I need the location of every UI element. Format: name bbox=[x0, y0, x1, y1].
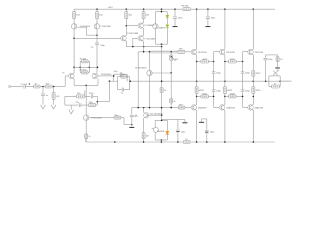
wire T9 emitter to rail bbox=[196, 62, 198, 82]
resistor R29 10 damping bbox=[272, 85, 280, 88]
junction feedback node bbox=[113, 75, 115, 77]
wire bbox=[126, 76, 129, 78]
wire LTP tail bbox=[74, 84, 98, 86]
wire feedback riser bbox=[108, 81, 110, 101]
svg-text:2SA970: 2SA970 bbox=[158, 27, 166, 30]
resistor R16 4R7 upper base bbox=[178, 50, 185, 53]
svg-text:T4 2SA970: T4 2SA970 bbox=[144, 24, 155, 27]
transistor T4 2SA970 bbox=[153, 24, 158, 29]
wire output stub bbox=[280, 80, 291, 82]
wire C17 lead bbox=[207, 9, 209, 16]
wire fb loop left vertical bbox=[117, 77, 119, 90]
wire T2 collector column lower bbox=[96, 44, 98, 73]
wire LTP right emitter bbox=[97, 79, 99, 86]
wire top supply rail left segment bbox=[74, 8, 183, 10]
junction diode bracket bottom bbox=[161, 139, 163, 141]
wire diode bracket bottom bbox=[155, 139, 167, 141]
transistor T15 2SC5200 bbox=[248, 49, 253, 55]
wire lower drive rail right bbox=[185, 107, 191, 109]
junction T2 collector diode connection bbox=[96, 34, 98, 36]
wire bbox=[88, 71, 89, 73]
wire T15 emitter bbox=[252, 55, 254, 62]
junction loop right bbox=[89, 67, 91, 69]
junction top rail x196 bbox=[196, 8, 198, 10]
svg-text:1k: 1k bbox=[35, 84, 37, 86]
junction x149 y52 bbox=[149, 51, 151, 53]
junction x132 y46 bbox=[132, 46, 134, 48]
resistor R7 4k7 bbox=[45, 85, 52, 88]
inductor L1 bbox=[273, 71, 278, 75]
wire bbox=[265, 55, 267, 58]
resistor R1 100 bbox=[73, 12, 76, 19]
wire bbox=[225, 61, 229, 63]
wire C2 to ground bbox=[42, 95, 44, 105]
junction x149 lower rail bbox=[149, 107, 151, 109]
input terminal bbox=[9, 86, 11, 88]
wire T16 collector to bottom rail bbox=[252, 110, 254, 142]
junction T16 emitter node bbox=[253, 96, 255, 98]
wire bbox=[40, 86, 45, 88]
wire T13 emitter bbox=[224, 55, 226, 62]
svg-text:2SA1943: 2SA1943 bbox=[226, 106, 235, 109]
wire bbox=[252, 93, 254, 104]
wire tail loop left vertical bbox=[64, 96, 66, 105]
resistor R19 1k bbox=[170, 99, 173, 103]
svg-text:R4 470: R4 470 bbox=[80, 70, 87, 72]
wire T3 emitter to T7 collector bbox=[143, 28, 145, 35]
resistor R24 0R22 vertical bbox=[252, 71, 255, 77]
junction LED bracket top bbox=[161, 11, 163, 13]
wire T8 base to trimmer bottom bbox=[150, 72, 171, 74]
svg-text:100n: 100n bbox=[211, 17, 215, 19]
svg-text:100n: 100n bbox=[268, 59, 272, 61]
svg-text:47k: 47k bbox=[56, 96, 59, 98]
wire T9 emitter bbox=[196, 55, 198, 62]
transistor T14 2SA1943 bbox=[219, 105, 224, 111]
capacitor C4 tail bbox=[91, 94, 92, 98]
wire bbox=[118, 89, 122, 91]
wire bracket right lower bbox=[166, 134, 168, 140]
wire to T6 base bbox=[74, 37, 121, 39]
junction trimmer bottom bbox=[170, 72, 172, 74]
ground bar C6 bbox=[129, 126, 134, 129]
junction T9 emitter bbox=[196, 61, 198, 63]
transistor T16 2SA1943 bbox=[248, 105, 253, 111]
wire LED column lower bbox=[166, 28, 168, 45]
wire bbox=[196, 93, 198, 104]
wire T14 base bbox=[214, 106, 220, 108]
capacitor C7 33p bbox=[120, 72, 121, 76]
svg-text:220u: 220u bbox=[89, 93, 93, 95]
ground arrow input resistor bbox=[51, 105, 56, 109]
wire LED column upper bbox=[166, 12, 168, 16]
junction x138 lower rail bbox=[137, 107, 139, 109]
wire bbox=[236, 95, 243, 97]
wire upper base feed bbox=[138, 51, 178, 53]
capacitor C17 100n bbox=[206, 17, 210, 18]
wire bbox=[80, 60, 81, 62]
junction x161 lower rail bbox=[161, 107, 163, 109]
capacitor C10 100u electrolytic bbox=[176, 129, 180, 131]
wire C6 upper lead bbox=[131, 108, 133, 115]
wire zobel top bbox=[266, 54, 278, 56]
wire top supply rail right segment bbox=[190, 8, 275, 10]
junction C11 bottom rail bbox=[206, 141, 208, 143]
wire LED bracket top bbox=[155, 11, 167, 13]
wire bbox=[125, 19, 127, 26]
wire T7 emitter drop bbox=[143, 41, 145, 52]
wire base column x213 upper bbox=[213, 52, 215, 62]
junction T11 collector bbox=[143, 107, 145, 109]
junction C10 bottom rail bbox=[177, 141, 179, 143]
resistor R15 1k bbox=[85, 134, 88, 139]
trimmer P1 arrow bbox=[170, 56, 175, 61]
wire R19 to lower rail bbox=[170, 103, 172, 108]
junction emitter column3 mid rail bbox=[253, 80, 255, 82]
wire between LEDs bbox=[166, 18, 168, 25]
wire bbox=[96, 104, 98, 106]
svg-text:+42V: +42V bbox=[108, 7, 114, 9]
wire bbox=[143, 9, 145, 12]
junction T16 bottom rail bbox=[253, 141, 255, 143]
wire bbox=[197, 61, 201, 63]
wire cs base bbox=[89, 117, 114, 119]
wire loop left vertical bbox=[79, 61, 81, 72]
wire bbox=[196, 81, 198, 87]
wire to T9 base bbox=[185, 51, 191, 53]
transistor T4a BC560C LTP left bbox=[69, 73, 74, 79]
junction top rail x126 bbox=[126, 8, 128, 10]
wire T4 collector bbox=[154, 12, 156, 24]
junction x242 y96 bbox=[242, 96, 244, 98]
wire T13 collector column bbox=[224, 9, 226, 49]
junction diode bracket bottom rail bbox=[161, 141, 163, 143]
svg-text:10k: 10k bbox=[115, 115, 118, 117]
svg-text:1k: 1k bbox=[173, 101, 175, 103]
junction vbe column mid rail bbox=[161, 80, 163, 82]
trimmer P1 box bbox=[170, 55, 173, 61]
wire T9 collector column bbox=[196, 9, 198, 49]
wire bbox=[242, 62, 244, 72]
junction C2 tap bbox=[42, 86, 44, 88]
junction x242 y61 bbox=[242, 61, 244, 63]
svg-text:R3 22k: R3 22k bbox=[80, 59, 86, 61]
wire bbox=[269, 86, 272, 88]
wire L bracket left bbox=[268, 76, 270, 87]
wire C7 to mid rail bbox=[126, 74, 128, 81]
wire C2 lead bbox=[42, 87, 44, 94]
junction R8 tap bbox=[53, 86, 55, 88]
wire base column x242 upper bbox=[242, 52, 244, 62]
wire tail to current source bbox=[85, 85, 87, 115]
wire bottom rail start riser bbox=[85, 139, 87, 142]
wire to bottom rail bbox=[143, 139, 145, 142]
diode D3 orange highlighted bbox=[166, 131, 169, 134]
junction LED bracket bottom bbox=[161, 43, 163, 45]
capacitor C3 100p phase lead bbox=[95, 43, 99, 44]
LED D1 green bbox=[166, 15, 169, 18]
resistor R17 10k bbox=[114, 116, 121, 119]
wire C6 lower lead bbox=[131, 117, 133, 127]
wire bbox=[73, 19, 75, 24]
wire base column x213 crossing rail bbox=[213, 73, 215, 89]
wire diode bracket top bbox=[155, 119, 167, 121]
wire bbox=[65, 95, 77, 97]
polarity marker C1 bbox=[29, 83, 30, 84]
wire bracket left upper bbox=[154, 120, 156, 127]
junction loop left vertical bbox=[79, 67, 81, 69]
wire T16 base bbox=[243, 106, 248, 108]
transistor T6 BC546B bbox=[121, 36, 126, 42]
resistor R27 4R7 bbox=[229, 95, 237, 98]
wire to ground bbox=[70, 105, 72, 110]
junction top rail x175 bbox=[174, 8, 176, 10]
wire T12 base stub bbox=[152, 128, 154, 130]
junction T11 base node bbox=[161, 114, 163, 116]
wire bbox=[224, 93, 226, 104]
wire bbox=[118, 76, 121, 78]
resistor R26 4R7 bbox=[201, 95, 209, 98]
svg-text:R9 0R1: R9 0R1 bbox=[182, 5, 190, 7]
transistor T13 2SC5200 bbox=[219, 49, 224, 55]
svg-text:1k: 1k bbox=[135, 115, 137, 117]
resistor R14 680 bbox=[89, 104, 96, 107]
resistor R20 4R7 lower base bbox=[178, 106, 185, 109]
svg-text:2SC5200: 2SC5200 bbox=[198, 52, 208, 54]
capacitor C1 input coupling bbox=[24, 84, 25, 88]
wire cs base to C6 node bbox=[124, 124, 132, 126]
wire C7 left lead bbox=[114, 73, 120, 75]
wire bbox=[73, 9, 75, 12]
wire to bottom rail bbox=[85, 139, 87, 142]
svg-text:1u: 1u bbox=[121, 92, 123, 94]
wire loop exit bbox=[129, 80, 132, 82]
capacitor C16 100n bbox=[173, 17, 177, 18]
wire C10 to bottom rail bbox=[177, 132, 179, 142]
wire input riser bbox=[64, 76, 66, 87]
junction T6 collector / T3 base bbox=[126, 25, 128, 27]
svg-text:1k: 1k bbox=[164, 90, 166, 92]
transistor T11 2SC3423 bbox=[144, 113, 149, 119]
wire bbox=[236, 61, 243, 63]
wire T15 collector column bbox=[252, 9, 254, 49]
wire bbox=[25, 86, 33, 88]
wire R24 to rail bbox=[252, 76, 254, 81]
capacitor C13 100p bbox=[212, 90, 216, 91]
junction x213 y96 bbox=[213, 96, 215, 98]
resistor R23 0R22 bbox=[229, 60, 237, 63]
wire T6 emitter drop bbox=[125, 41, 127, 47]
wire base column x242 lower bbox=[242, 91, 244, 107]
transistor T3 BC546B current source bbox=[84, 115, 89, 120]
wire bottom supply rail left bbox=[86, 141, 184, 143]
transistor T12 diode connected bbox=[153, 127, 158, 132]
ground arrow tail network bbox=[69, 110, 74, 114]
svg-text:T7 BC546B: T7 BC546B bbox=[144, 38, 155, 40]
resistor emitter T14 bbox=[223, 87, 226, 94]
ground bar C17 bbox=[205, 25, 210, 28]
junction top rail x225 bbox=[224, 8, 226, 10]
wire bracket left lower bbox=[154, 132, 156, 140]
junction T14 bottom rail bbox=[224, 141, 226, 143]
svg-text:2SC5200: 2SC5200 bbox=[255, 52, 265, 54]
junction top rail x253 bbox=[253, 8, 255, 10]
wire T11 collector bbox=[143, 108, 145, 113]
transistor T5 BC560C LTP right bbox=[93, 73, 98, 79]
wire T7 base stub bbox=[133, 37, 138, 39]
junction top rail x144 bbox=[143, 8, 145, 10]
capacitor C8 feedback loop bbox=[122, 88, 123, 92]
junction emitter column1 mid rail bbox=[196, 80, 198, 82]
junction top rail x208 bbox=[207, 8, 209, 10]
junction x143 y46 bbox=[143, 46, 145, 48]
wire bbox=[208, 61, 213, 63]
wire Vbe multiplier column bbox=[161, 47, 163, 121]
wire bbox=[81, 104, 89, 106]
wire T5 base to feedback node bbox=[98, 75, 114, 77]
wire current source emitter bbox=[85, 120, 87, 133]
wire bbox=[80, 71, 81, 73]
ground bar zobel bbox=[275, 67, 280, 70]
resistor R13 100 tail bbox=[76, 95, 85, 98]
junction T7 emitter feed bbox=[143, 51, 145, 53]
junction inductor right bbox=[279, 80, 281, 82]
junction LTP right collector bbox=[97, 67, 99, 69]
wire stub bbox=[201, 119, 203, 122]
svg-text:T2 BC560C: T2 BC560C bbox=[100, 26, 111, 28]
wire bracket to bottom rail bbox=[160, 140, 162, 142]
resistor R2 100 bbox=[96, 12, 99, 19]
wire bbox=[225, 95, 229, 97]
svg-text:100u: 100u bbox=[210, 132, 214, 134]
junction C6 node bbox=[131, 124, 133, 126]
wire bbox=[252, 81, 254, 87]
transistor T1 BC560C bbox=[71, 24, 76, 29]
junction feedback riser top bbox=[109, 80, 111, 82]
capacitor C14 100p bbox=[241, 72, 245, 73]
junction LTP tail bbox=[85, 85, 87, 87]
wire output rail bbox=[130, 80, 291, 82]
wire LED bracket bottom bbox=[155, 43, 167, 45]
wire C10 upper lead bbox=[177, 119, 179, 129]
wire bbox=[109, 80, 113, 82]
wire T11 emitter bbox=[143, 118, 145, 133]
wire bracket to bias row bbox=[161, 44, 163, 46]
wire trimmer top lead bbox=[170, 52, 172, 55]
wire zobel cap to rail bbox=[265, 60, 267, 81]
wire to RC loop bbox=[114, 80, 118, 82]
svg-text:2u: 2u bbox=[277, 70, 279, 72]
wire T10 collector to bottom rail bbox=[196, 110, 198, 142]
junction trimmer top bbox=[170, 51, 172, 53]
transistor T8 2SC3423 bbox=[147, 70, 152, 75]
junction T13 emitter bbox=[224, 61, 226, 63]
capacitor C5 22u bbox=[80, 103, 81, 107]
wire T8 collector column bbox=[149, 52, 151, 71]
wire bbox=[277, 55, 279, 57]
ground bar C10 side bbox=[182, 121, 187, 124]
LED D2 green bbox=[166, 25, 169, 28]
junction T10 emitter node bbox=[196, 96, 198, 98]
resistor R30 10 in bottom rail bbox=[183, 141, 190, 144]
ground bar C11 side bbox=[199, 121, 204, 124]
junction T14 emitter node bbox=[224, 96, 226, 98]
wire loop right vertical bbox=[88, 61, 90, 72]
wire C11 link bbox=[202, 118, 207, 120]
wire C16 to ground bbox=[174, 18, 176, 26]
resistor R9 0R1 in top rail bbox=[183, 8, 190, 11]
svg-text:2SA1943: 2SA1943 bbox=[198, 106, 207, 109]
wire T6 collector bbox=[125, 26, 127, 36]
wire C17 to ground bbox=[207, 18, 209, 26]
wire LTP left emitter bbox=[73, 79, 75, 86]
svg-text:C3: C3 bbox=[91, 47, 93, 49]
resistor emitter T10 bbox=[195, 87, 198, 94]
junction emitter column2 mid rail bbox=[224, 80, 226, 82]
wire lower drive rail left bbox=[132, 107, 179, 109]
wire R8 to ground bbox=[53, 99, 55, 105]
junction VAS base takeoff bbox=[73, 38, 75, 40]
wire bbox=[85, 95, 91, 97]
svg-text:T8 2SC3423: T8 2SC3423 bbox=[135, 68, 148, 70]
wire tail loop right vertical bbox=[96, 96, 98, 105]
wire mirror base drop bbox=[86, 27, 88, 35]
junction T10 bottom rail bbox=[196, 141, 198, 143]
wire bias row y46 bbox=[126, 46, 161, 48]
wire bbox=[143, 19, 145, 23]
wire bbox=[213, 62, 215, 72]
resistor emitter T16 bbox=[252, 87, 255, 94]
capacitor C6 47u bbox=[130, 115, 134, 116]
wire C7 right lead bbox=[122, 73, 127, 75]
wire T8 emitter column through mid rail bbox=[149, 76, 151, 108]
wire T13 base bbox=[214, 51, 220, 53]
wire bottom supply rail right bbox=[190, 141, 275, 143]
junction x213 y61 bbox=[213, 61, 215, 63]
wire stub to ground bar bbox=[184, 119, 186, 122]
resistor R18 1k bbox=[160, 88, 163, 93]
ground bar C16 bbox=[173, 25, 178, 28]
wire cs base drop bbox=[123, 118, 125, 125]
junction R19 lower rail bbox=[170, 107, 172, 109]
transistor T9 2SC5200 bbox=[191, 49, 196, 55]
wire T1 collector column down to LTP bbox=[73, 29, 75, 73]
wire R8 lead bbox=[53, 87, 55, 93]
resistor R22 0R22 bbox=[201, 60, 209, 63]
wire base column x213 lower bbox=[213, 91, 215, 107]
svg-text:1N4148: 1N4148 bbox=[157, 131, 165, 133]
wire column x138 down bbox=[137, 52, 139, 108]
wire R28 to ground bbox=[277, 62, 279, 68]
wire bbox=[88, 60, 89, 62]
wire T1 base to T2 base bbox=[77, 26, 86, 28]
capacitor C12 100p bbox=[212, 72, 216, 73]
wire inductor branch bbox=[269, 75, 280, 77]
wire bbox=[65, 104, 79, 106]
svg-text:2SA1943: 2SA1943 bbox=[255, 106, 264, 109]
highlighted wire segment bbox=[149, 50, 179, 54]
ground arrow input cap bbox=[41, 105, 46, 109]
junction diode bracket top bbox=[161, 120, 163, 122]
junction top rail x161 bbox=[161, 8, 163, 10]
svg-text:1k: 1k bbox=[88, 136, 90, 138]
wire mirror base to T2 collector bbox=[87, 34, 98, 36]
resistor R21 4k7 bbox=[142, 133, 145, 139]
wire T14 collector to bottom rail bbox=[224, 110, 226, 142]
junction x161 y46 bbox=[161, 46, 163, 48]
wire fb loop right vertical bbox=[129, 77, 131, 90]
wire C11 upper lead bbox=[206, 119, 208, 130]
